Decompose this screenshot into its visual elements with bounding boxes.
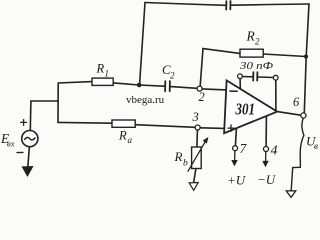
wire pin 3 to op-amp non-inverting input xyxy=(200,127,224,130)
label U out xyxy=(306,134,318,152)
svg-text:2: 2 xyxy=(255,37,260,47)
wire C2 to pin 2 xyxy=(171,87,197,89)
svg-text:b: b xyxy=(183,159,188,169)
op-amp inverting input minus mark xyxy=(230,90,237,92)
svg-text:4: 4 xyxy=(271,144,278,159)
resistor Ra xyxy=(112,120,135,127)
wire op-amp output to pin 6 xyxy=(277,112,301,116)
label R2 xyxy=(246,29,261,47)
wire pin 7 stub xyxy=(235,129,236,146)
wire left vertical of feedback loop xyxy=(140,3,145,85)
wire output brace down (U_out span) xyxy=(300,118,304,167)
wire top feedback right segment xyxy=(231,4,309,5)
pin 4 terminal circle xyxy=(264,147,269,152)
wire comp stub right xyxy=(275,80,277,110)
svg-text:30 пФ: 30 пФ xyxy=(239,60,273,72)
resistor Rb (variable) xyxy=(192,147,202,169)
wire output jog to ground xyxy=(291,167,300,190)
pin 2 terminal circle xyxy=(197,86,202,91)
svg-text:2: 2 xyxy=(199,90,205,104)
wire junction to C2 xyxy=(139,85,164,86)
source E_vx minus sign xyxy=(17,151,23,153)
wire R2 left lead xyxy=(203,49,240,54)
wire Ra left lead xyxy=(58,121,112,124)
wire Rb bottom xyxy=(194,169,196,184)
op-amp non-inverting input plus mark xyxy=(228,125,234,131)
wire R1 right lead to junction xyxy=(113,83,139,85)
svg-text:vbega.ru: vbega.ru xyxy=(126,94,165,106)
svg-text:R: R xyxy=(96,62,105,76)
wire R2 right lead xyxy=(263,54,306,57)
svg-text:вх: вх xyxy=(7,139,15,149)
wire -U arrow xyxy=(265,152,267,162)
node junction dot at R1/C2/feedback xyxy=(137,83,142,88)
compensation pin circle left xyxy=(238,74,243,79)
label Rb xyxy=(174,149,189,169)
wire source top horizontal xyxy=(31,100,58,102)
wire pin 3 down to Rb xyxy=(196,130,199,147)
resistor R2 xyxy=(240,49,263,57)
node junction dot R2/right vertical xyxy=(304,54,308,58)
svg-text:R: R xyxy=(174,149,183,164)
svg-text:3: 3 xyxy=(192,110,199,124)
capacitor C1 (top feedback, unlabeled) xyxy=(226,1,230,10)
wire R2 vertical down to node 2 xyxy=(200,49,203,86)
compensation pin circle right xyxy=(273,75,278,80)
wire Ra right lead to pin 3 xyxy=(135,125,195,128)
wire +U arrow xyxy=(234,151,236,161)
wire pin 2 to op-amp inverting input xyxy=(202,89,226,90)
wire pin 4 stub xyxy=(265,117,267,147)
svg-text:1: 1 xyxy=(105,69,110,79)
svg-text:в: в xyxy=(314,141,318,151)
wire left vertical bus xyxy=(57,83,59,122)
wire source top vertical xyxy=(29,101,32,131)
label R1 xyxy=(96,62,110,79)
svg-text:6: 6 xyxy=(293,95,300,109)
wire source bottom xyxy=(28,147,30,167)
svg-text:R: R xyxy=(118,129,127,143)
op-amp U1 (301) triangle xyxy=(224,80,277,133)
label Ra xyxy=(118,129,133,146)
wire comp stub left xyxy=(239,79,241,89)
wire comp cap right lead xyxy=(258,76,273,79)
ground arrow below source (filled) xyxy=(22,167,32,177)
wire comp cap left lead xyxy=(243,76,253,78)
svg-text:−U: −U xyxy=(257,172,277,187)
svg-text:R: R xyxy=(246,29,256,44)
resistor R1 xyxy=(92,78,113,85)
wire R1 left lead xyxy=(58,82,92,83)
ground triangle bottom right (open) xyxy=(286,191,296,198)
wire top feedback left segment xyxy=(145,3,225,6)
source E_vx circle with sine symbol xyxy=(22,131,38,147)
svg-text:+U: +U xyxy=(227,173,247,188)
pin 3 terminal circle xyxy=(195,125,200,130)
arrow across Rb xyxy=(188,142,205,172)
wire right vertical of feedback loop xyxy=(304,4,309,112)
svg-text:a: a xyxy=(128,135,133,145)
svg-text:2: 2 xyxy=(170,71,175,81)
pin 7 terminal circle xyxy=(233,146,238,151)
pin 6 terminal circle xyxy=(301,113,306,118)
label C2 xyxy=(162,62,175,81)
svg-text:7: 7 xyxy=(240,141,248,156)
source E_vx plus sign xyxy=(21,120,27,126)
svg-text:301: 301 xyxy=(235,100,255,119)
capacitor C2 xyxy=(165,81,170,91)
ground arrow below Rb (open) xyxy=(189,183,198,191)
label E input xyxy=(0,131,15,149)
capacitor 30pF plates xyxy=(253,72,257,80)
